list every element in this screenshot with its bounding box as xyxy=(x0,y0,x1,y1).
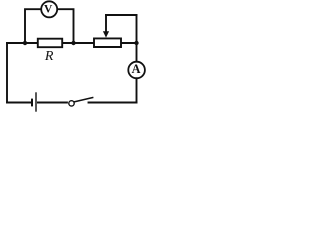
node A junction dot xyxy=(23,41,27,45)
battery cell long plate xyxy=(35,92,37,111)
node C junction dot xyxy=(134,41,138,45)
wire main line mid xyxy=(63,42,94,44)
wire rheostat top line xyxy=(106,14,137,16)
wire main line right xyxy=(122,42,137,44)
wire voltmeter branch right xyxy=(58,9,74,43)
wire left vertical xyxy=(6,43,8,103)
wire bottom left segment xyxy=(7,102,31,104)
resistor R box xyxy=(38,39,62,48)
ammeter A1 circle xyxy=(128,62,145,79)
wire switch to corner xyxy=(89,102,137,104)
svg-text:R: R xyxy=(44,49,54,64)
node B junction dot xyxy=(71,41,75,45)
wire right vertical lower xyxy=(136,78,138,102)
voltmeter V1 circle xyxy=(41,1,57,17)
switch lever xyxy=(74,97,94,102)
wire battery to switch xyxy=(37,102,68,104)
wire main line left xyxy=(7,42,38,44)
wire right vertical upper xyxy=(136,15,138,61)
svg-text:V: V xyxy=(44,4,53,16)
svg-text:A: A xyxy=(132,62,141,76)
wire voltmeter branch left xyxy=(25,9,41,43)
rheostat box xyxy=(94,38,121,47)
switch pivot circle xyxy=(69,101,74,106)
arrow stem xyxy=(105,15,107,32)
arrowhead of rheostat wiper xyxy=(103,31,109,37)
battery cell short plate xyxy=(31,99,33,107)
